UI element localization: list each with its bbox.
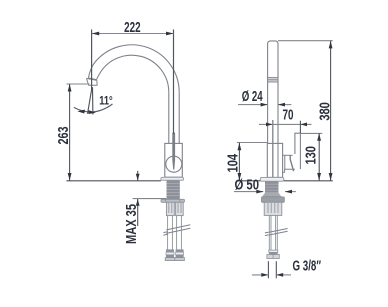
hose fitting slots	[169, 203, 181, 213]
hose connector left A	[165, 249, 175, 260]
lever arm top	[283, 154, 293, 156]
svg-text:70: 70	[283, 108, 294, 124]
dim d50 line left	[234, 191, 263, 193]
spout aerator	[86, 78, 97, 85]
dim MAX35 ext bottom	[133, 198, 167, 200]
connector flare side	[267, 255, 279, 259]
break marks side view	[265, 229, 288, 236]
break marks left view	[163, 225, 190, 235]
handle circle	[166, 156, 182, 172]
dim d24 line right	[278, 104, 291, 106]
dim d24 arrow right	[278, 103, 285, 107]
dim 263 arrow bottom	[68, 173, 72, 181]
angle tilted line	[88, 87, 93, 114]
angle vertical line	[92, 87, 94, 114]
lever arm left edge	[284, 155, 286, 169]
hose fitting left A	[166, 202, 174, 215]
lever bar	[172, 132, 175, 169]
dim d24 arrow left	[261, 103, 268, 107]
svg-text:222: 222	[124, 20, 141, 36]
connector band side	[269, 252, 278, 254]
tube side view	[268, 41, 278, 143]
dim G38 ext right	[275, 261, 277, 278]
dim 104 arrow top	[238, 143, 242, 151]
dim 222 arrow left	[92, 32, 100, 36]
dim G38 ext left	[267, 261, 269, 278]
riser tube right wall	[178, 92, 180, 143]
dim d50 arrow right	[285, 190, 292, 194]
spout tip cut line	[88, 78, 96, 80]
dim MAX35 line upper	[137, 171, 139, 181]
dim 263 arrow top	[68, 84, 72, 92]
hose tube left A	[168, 216, 182, 250]
dim G38 arrow right	[276, 273, 283, 277]
dim 263 extension top	[67, 83, 90, 85]
hose connector left B	[175, 249, 185, 260]
dim G38 line left	[252, 274, 268, 276]
spout outer arc	[88, 45, 179, 93]
svg-text:104: 104	[225, 154, 241, 173]
tube axis line	[272, 120, 274, 177]
nut facets left	[166, 200, 180, 203]
dim 130 arrow bottom	[317, 173, 321, 181]
thread block side view	[265, 181, 279, 193]
tube wall through body	[277, 143, 279, 177]
connector ring side	[269, 250, 278, 252]
tube ring band	[268, 78, 278, 82]
dim MAX35 arrow lower	[136, 199, 140, 206]
svg-text:263: 263	[56, 127, 72, 145]
nut side view	[262, 197, 285, 202]
svg-text:Ø 24: Ø 24	[242, 89, 263, 105]
dim MAX35 arrow upper	[136, 174, 140, 181]
dim 222 arrow right	[166, 32, 174, 36]
dim 70 arrow left	[266, 123, 273, 127]
lever grip	[295, 133, 301, 169]
dim G38 arrow left	[261, 273, 268, 277]
lever bottom	[283, 169, 295, 172]
dim 380 line	[330, 41, 332, 181]
flange side view	[260, 178, 284, 182]
tube ring	[268, 78, 278, 82]
body side view	[267, 143, 282, 177]
dim 380 arrow bottom	[329, 173, 333, 181]
dim 104 arrow bottom	[238, 173, 242, 181]
svg-text:130: 130	[304, 146, 320, 165]
lever dark edge	[290, 155, 293, 171]
flange left view	[161, 177, 184, 180]
dim MAX35 line lower	[137, 199, 139, 226]
angle arrow left	[77, 110, 85, 114]
countertop line right view right	[284, 180, 333, 182]
dim 130 ext top	[301, 132, 323, 134]
countertop line left view	[66, 180, 160, 182]
countertop line right view left	[238, 180, 261, 182]
dim 130 line	[318, 133, 320, 180]
dim d50 line right	[285, 191, 296, 193]
dim 70 ext right	[299, 121, 301, 133]
thread lines left view	[167, 183, 180, 195]
body box	[165, 143, 183, 177]
dim d24 line left	[238, 104, 268, 106]
angle arrow right	[88, 110, 95, 114]
fitting block side view	[264, 202, 282, 215]
riser tube left wall	[168, 92, 170, 143]
svg-text:G 3/8″: G 3/8″	[293, 259, 322, 275]
connector flare middle line	[272, 255, 274, 259]
svg-text:380: 380	[317, 102, 333, 121]
nut left view	[161, 199, 185, 202]
dim 380 arrow top	[329, 41, 333, 49]
hose fitting left B	[176, 202, 184, 215]
hose side view	[269, 215, 277, 250]
dim 104 ext top	[237, 142, 267, 144]
dim G38 line right	[276, 274, 291, 276]
spout inner arc	[97, 55, 169, 92]
dim 104 line	[238, 143, 240, 181]
thread block left view	[167, 180, 180, 199]
svg-text:MAX 35: MAX 35	[124, 204, 140, 244]
dim 222 extension left	[91, 30, 93, 90]
dim d50 arrow left	[256, 190, 263, 194]
thread lines side	[265, 184, 279, 190]
dim 222 extension right	[173, 30, 175, 135]
dim 130 arrow top	[317, 133, 321, 141]
dim 70 arrow right	[300, 123, 307, 127]
dim 70 line	[259, 123, 312, 125]
dim 263 line	[69, 84, 71, 181]
skirt side view	[262, 193, 282, 197]
ext line tube top	[278, 40, 333, 42]
svg-text:11°: 11°	[99, 95, 113, 107]
fitting slots side	[268, 203, 278, 213]
dim 222 line	[92, 33, 174, 35]
angle arc	[74, 104, 113, 112]
